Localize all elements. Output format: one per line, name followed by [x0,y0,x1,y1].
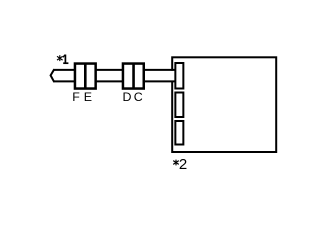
terminal 2 on unit (middle socket) [175,93,183,118]
antenna cable (wire) [51,70,176,82]
label *1 asterisk [57,55,63,61]
cable torn end (continuation mark) [51,69,55,82]
inline connector F-E [75,64,96,89]
svg-text:D: D [123,90,132,104]
terminal 1 on unit (top socket) [175,63,183,89]
svg-text:E: E [84,90,92,104]
inline connector D-C [123,64,144,89]
label *1 digit 1 [63,55,69,64]
svg-text:2: 2 [179,156,187,173]
unit box (TV rear panel) [172,57,276,152]
svg-text:C: C [134,90,143,104]
svg-text:F: F [72,90,80,104]
label *2 asterisk [173,160,179,166]
terminal 3 on unit (bottom socket) [175,121,183,145]
